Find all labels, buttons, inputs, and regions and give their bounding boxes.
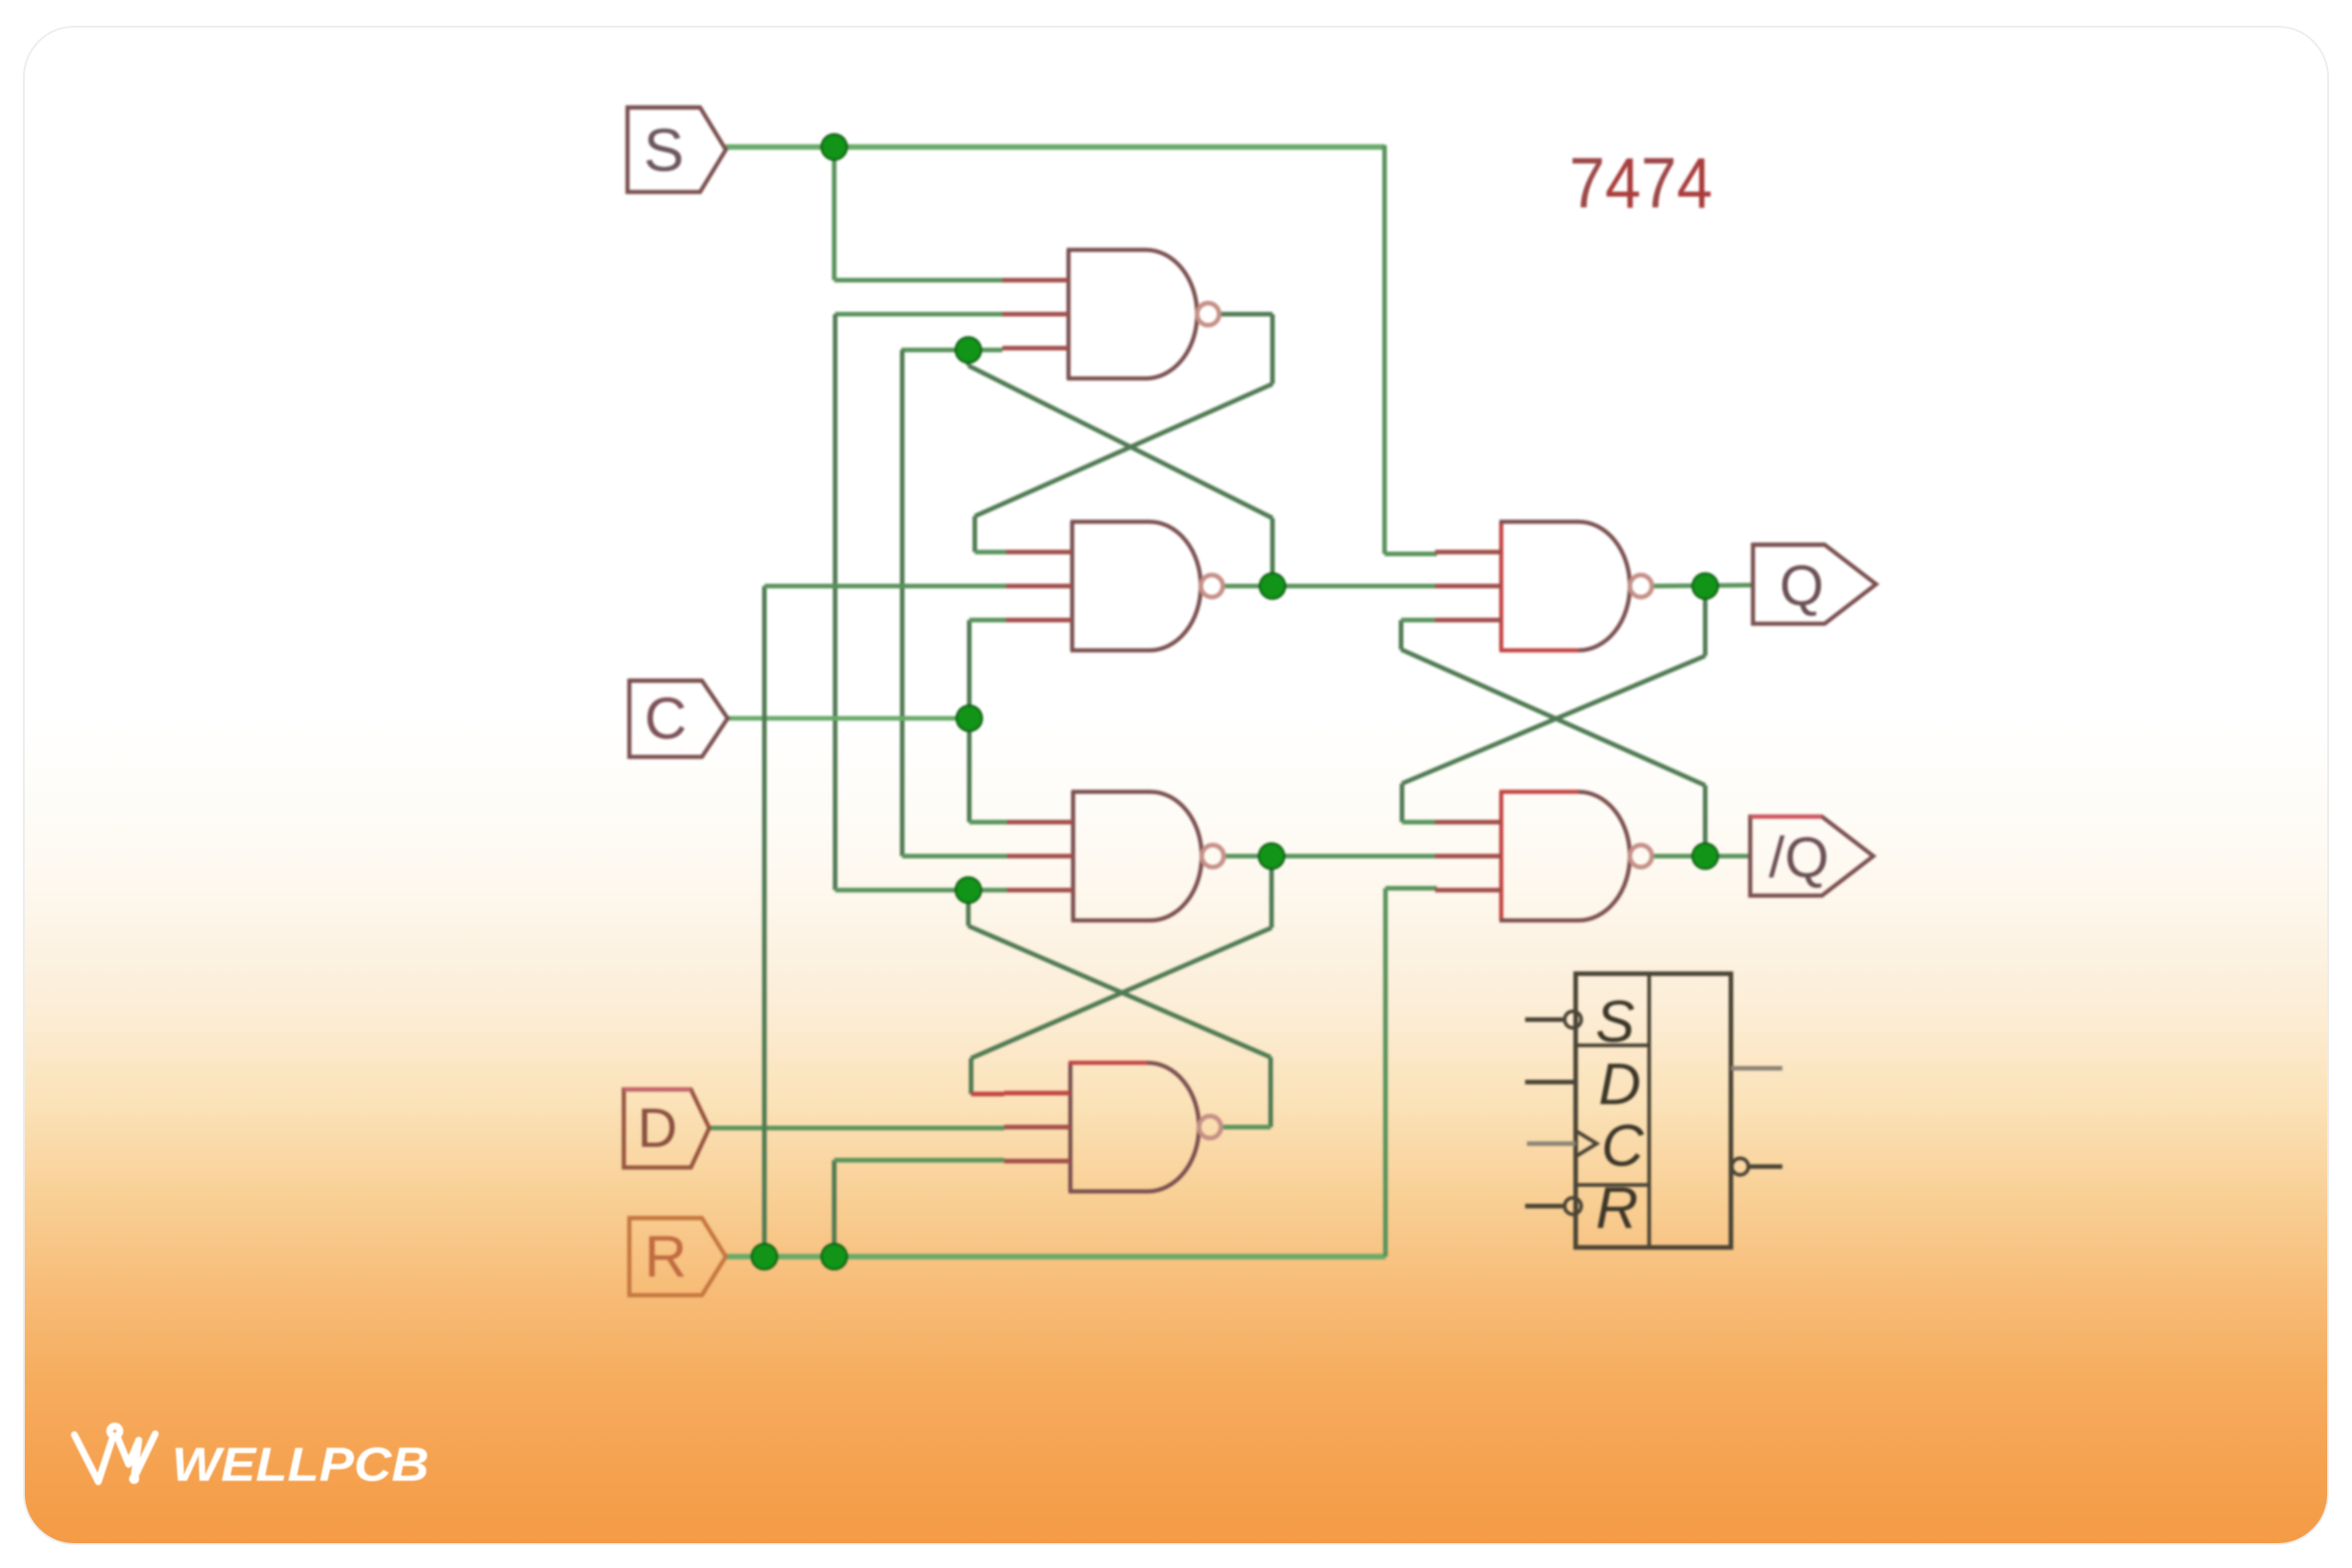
NAND gate G5 bbox=[1435, 522, 1652, 650]
wire n4 riser to G4 output bbox=[1269, 1057, 1273, 1127]
wire /Q drop bbox=[1399, 620, 1404, 649]
wire S label to corner bbox=[726, 144, 1385, 150]
wire R label to corner bbox=[726, 1254, 1385, 1259]
output label Q bbox=[1753, 545, 1876, 624]
wire n2 riser bbox=[1271, 518, 1275, 586]
svg-text:C: C bbox=[644, 685, 686, 751]
wire C riser up to G2 bbox=[967, 620, 972, 718]
NAND gate G3 bbox=[1007, 792, 1224, 920]
svg-text:/Q: /Q bbox=[1769, 827, 1828, 890]
wire n3 G3 output to G6 middle input bbox=[1224, 854, 1437, 859]
pin S of U1 bbox=[1525, 988, 1634, 1055]
wire D label to G4 middle input bbox=[709, 1126, 1004, 1131]
junction Q node bbox=[1692, 573, 1718, 599]
wire R into G4 bottom input bbox=[834, 1158, 1004, 1163]
svg-text:S: S bbox=[1596, 988, 1635, 1055]
pin /Q of U1 bbox=[1732, 1158, 1782, 1175]
D flip-flop symbol U1 bbox=[1576, 974, 1731, 1247]
NAND gate G2 bbox=[1006, 522, 1223, 650]
input label R bbox=[629, 1218, 726, 1295]
junction n2 node at G2 output bbox=[1260, 573, 1285, 599]
wire n1 from G1 bubble bbox=[1219, 312, 1272, 317]
wire n1 into G2 top input bbox=[975, 550, 1006, 555]
wire n3 riser bbox=[1270, 856, 1274, 928]
junction R node 2 bbox=[821, 1244, 847, 1269]
junction n3 node at G3 output bbox=[1259, 843, 1284, 869]
wire C label to junction bbox=[728, 716, 969, 721]
wire n2 into G3 middle input bbox=[902, 854, 1007, 859]
svg-text:R: R bbox=[1596, 1175, 1638, 1241]
wire n2 riser to G3 bbox=[900, 350, 905, 856]
NAND gate G4 bbox=[1004, 1063, 1221, 1191]
wire n4 long riser bbox=[833, 314, 838, 890]
junction R node 1 bbox=[752, 1244, 777, 1269]
wire n4 drop bbox=[967, 890, 971, 926]
wire n1 diagonal bbox=[975, 384, 1272, 516]
pin D of U1 bbox=[1525, 1051, 1641, 1117]
wire Q from G5 bubble to label bbox=[1652, 585, 1753, 586]
wire S riser down to G1 bbox=[832, 147, 837, 280]
junction n2 node at G1 bottom input bbox=[955, 337, 981, 363]
wire C into G2 bottom input bbox=[969, 618, 1006, 623]
input label C bbox=[629, 681, 728, 757]
junction /Q node bbox=[1692, 843, 1718, 869]
pin R of U1 bbox=[1525, 1175, 1638, 1241]
svg-text:S: S bbox=[643, 116, 684, 184]
svg-text:R: R bbox=[644, 1224, 686, 1290]
wire /Q riser up bbox=[1703, 785, 1708, 856]
wire /Q from G6 bubble to label bbox=[1652, 854, 1750, 859]
NAND gate G1 bbox=[1002, 250, 1219, 378]
wire C riser down to G3 bbox=[967, 718, 972, 822]
NAND gate G6 bbox=[1435, 792, 1652, 920]
wire n2 drop to G1 bottom line bbox=[967, 348, 971, 366]
wire S riser down to G5 bbox=[1383, 145, 1387, 554]
wire /Q into G5 bottom input bbox=[1401, 618, 1437, 623]
wire C into G3 top input bbox=[969, 820, 1007, 825]
pin Q of U1 bbox=[1731, 1066, 1782, 1071]
wire n4 diagonal bbox=[968, 926, 1271, 1057]
junction n4 node at G3 bottom input bbox=[955, 877, 981, 903]
svg-text:Q: Q bbox=[1780, 555, 1824, 618]
pin C of U1 bbox=[1527, 1112, 1645, 1179]
svg-text:D: D bbox=[1599, 1051, 1641, 1117]
wire n3 drop to G4 bbox=[969, 1058, 974, 1094]
wire n1 drop bbox=[1271, 314, 1275, 384]
wire R riser to G6 bbox=[1384, 888, 1388, 1257]
wire S into G5 top input bbox=[1385, 552, 1437, 557]
wire Q into G6 top input bbox=[1402, 820, 1437, 825]
wire n2 diagonal bbox=[968, 366, 1272, 518]
wire n4 to G3 bottom input bbox=[835, 888, 1009, 893]
wire R to G2 middle input bbox=[764, 584, 1006, 589]
wire n3 into G4 top input bbox=[971, 1092, 1004, 1097]
wire Q riser down bbox=[1703, 586, 1708, 656]
input label S bbox=[628, 107, 726, 192]
wire n1 drop to G2 bbox=[973, 516, 978, 552]
wire n4 from G4 bubble bbox=[1221, 1125, 1271, 1130]
svg-text:C: C bbox=[1601, 1112, 1645, 1179]
input label D bbox=[624, 1089, 709, 1168]
output label NQ bbox=[1750, 817, 1873, 896]
wire n3 diagonal bbox=[971, 928, 1272, 1058]
wire R riser to G4 bbox=[832, 1160, 837, 1257]
wire /Q diagonal bbox=[1401, 649, 1705, 785]
junction C node bbox=[956, 705, 982, 731]
wire Q diagonal bbox=[1402, 656, 1705, 784]
svg-text:7474: 7474 bbox=[1569, 142, 1713, 223]
wire R riser to G2 bbox=[763, 586, 767, 1257]
wire R into G6 bottom input bbox=[1385, 886, 1437, 891]
WELLPCB logo mark bbox=[74, 1427, 155, 1483]
wire n4 to G1 middle input bbox=[835, 312, 1004, 317]
junction S node bbox=[821, 134, 847, 160]
wire S into G1 top input bbox=[834, 278, 1004, 283]
wire n2 G2 output to G5 middle input bbox=[1223, 584, 1437, 589]
svg-text:WELLPCB: WELLPCB bbox=[172, 1438, 429, 1492]
wire Q drop bbox=[1400, 784, 1405, 822]
svg-text:D: D bbox=[638, 1098, 677, 1159]
wire n2 to G1 bottom input bbox=[901, 348, 1002, 353]
